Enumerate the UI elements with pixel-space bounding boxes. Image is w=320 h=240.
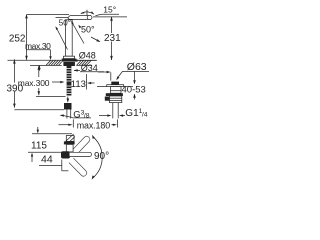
node: 252 dimension line: [26, 15, 28, 60]
top view: upper body rect: [66, 136, 74, 142]
faucet base plate: [64, 56, 75, 58]
node: 390 dimension line: [13, 59, 15, 82]
svg-text:max.30: max.30: [25, 41, 51, 51]
svg-text:50°: 50°: [59, 18, 71, 27]
drain deck line: [97, 86, 107, 88]
hose tube: [66, 110, 68, 119]
faucet body column: [65, 20, 72, 56]
wire: small down arrow below shank: [67, 97, 69, 100]
top view: wall line (thick): [64, 141, 75, 144]
15 degree arc with arrows: [81, 12, 94, 14]
node: deck hatching left: [46, 60, 62, 65]
drain threaded block: [110, 96, 122, 103]
drain tailpipe: [112, 103, 114, 119]
drain flange plate: [107, 85, 124, 87]
wire: drain extension vertical: [110, 72, 112, 80]
node: deck top line: [8, 59, 98, 61]
svg-text:44: 44: [41, 154, 53, 166]
drain washer (dark): [106, 93, 123, 96]
faucet base flange (dark): [62, 59, 77, 62]
top view: hatch across rect: [66, 134, 75, 141]
drain upper body: [110, 87, 121, 94]
svg-text:113: 113: [71, 79, 86, 90]
node: max.30 lower arrow: [39, 66, 41, 71]
threaded shank (dark with thread lines): [67, 66, 72, 96]
node: 231 extension line: [93, 16, 127, 18]
lever swing line D1 with arrow: [56, 28, 67, 50]
svg-text:Ø48: Ø48: [79, 51, 96, 61]
top view: spout bar: [70, 152, 92, 156]
svg-text:252: 252: [9, 33, 26, 44]
svg-text:231: 231: [104, 33, 121, 44]
wire: small leader to arc: [91, 37, 100, 42]
svg-text:115: 115: [31, 141, 47, 152]
svg-text:max.300: max.300: [18, 78, 50, 88]
mounting nut (dark): [63, 62, 75, 66]
drain side knob (dark): [105, 97, 110, 101]
svg-text:max.180: max.180: [77, 120, 111, 130]
cartridge cap ellipse: [87, 15, 92, 19]
top view: lower swivel arm: [69, 158, 87, 176]
wire: 252 top extension line: [27, 14, 70, 16]
drain lift knob (dark): [111, 82, 119, 85]
top view: 90 degree arc: [93, 137, 102, 178]
node: max.300 pointing arrow: [52, 81, 61, 83]
top view: pivot (dark): [61, 151, 70, 158]
node: 115 dimension: [32, 133, 72, 135]
hose nut (dark): [64, 103, 72, 110]
node: 40-53 dimension: [134, 72, 136, 83]
svg-text:15°: 15°: [103, 5, 116, 15]
wire: vertical reference above lever: [86, 10, 88, 16]
wire: 390 bottom extension: [14, 109, 64, 111]
wire: vertical reference x62: [61, 160, 63, 171]
wire: stub left of lever: [56, 16, 69, 18]
svg-text:50°: 50°: [81, 24, 95, 34]
lever swing line D2 with arrow: [72, 22, 84, 44]
wire: shank end extension: [36, 95, 66, 97]
top view: upper swivel arm: [73, 136, 90, 153]
wire: spout top edge extension: [28, 151, 62, 153]
node: deck hatching right: [77, 60, 92, 65]
lever bar: [68, 16, 92, 20]
svg-text:90°: 90°: [94, 151, 109, 162]
node: max.180 dimension: [59, 124, 71, 126]
top view: lower body: [66, 144, 73, 152]
node: deck bottom line: [30, 64, 62, 66]
svg-text:40-53: 40-53: [122, 84, 146, 95]
node: max.300 dimension line: [38, 66, 40, 77]
wire: 113 right reference line: [86, 74, 88, 90]
node: 231 dimension line: [111, 17, 113, 33]
node: 44 dimension: [31, 156, 33, 162]
